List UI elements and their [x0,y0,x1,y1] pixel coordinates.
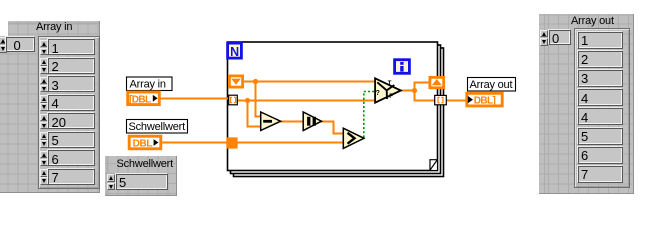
front panel: Schwellwert control panel [105,156,177,196]
Array out panel label [571,15,614,27]
svg-text:DBL]: DBL] [474,96,496,107]
svg-text:Schwellwert: Schwellwert [129,121,186,133]
for-loop frame 2 (middle) [231,45,441,174]
wire: branch down to subtract top input [256,82,262,117]
wire: junction up to right shift register [415,83,430,92]
Array in element 4 spinner [40,114,48,130]
Array out diagram label [468,78,516,92]
Array out element 6 value box (6) [578,147,623,164]
wire: Schwellwert terminal to tunnel [161,142,228,144]
junction dot B (shift reg branch) [253,79,258,84]
wire: input tunnel to select f input [238,100,376,102]
wire: junction down to output tunnel [415,90,436,101]
Array out element 1 value box (2) [578,51,623,68]
Array in element 7 value box (7) [48,169,95,185]
Array in element 4 value box (20) [48,113,95,129]
Array in element 3 value box (4) [48,95,95,111]
svg-text:F: F [389,94,393,100]
Array out index box [549,30,572,45]
junction dot C (select output) [412,88,417,93]
for-loop main frame [228,42,438,171]
svg-text:Array out: Array out [470,79,513,91]
Array in element 6 spinner [40,151,48,167]
Schwellwert DBL terminal [129,136,161,150]
Array in index spinner [0,37,7,53]
Array out element 4 value box (4) [578,108,623,125]
Array in element 6 value box (6) [48,150,95,166]
right shift register (up arrow) [430,77,444,87]
N count terminal [228,43,242,59]
wire: select out to junction [400,90,415,92]
Array out element rows [0,0,651,1]
Array in element 0 value box (1) [48,39,95,55]
Array out element 3 value box (4) [578,89,623,106]
wire: boolean greater out to select s input (green dotted) [364,92,375,138]
Schwellwert value box [116,174,168,190]
Array out index spinner [540,30,548,46]
front panel: Array out indicator panel [539,14,635,195]
Array out element 7 value box (7) [578,166,623,183]
for-loop dog-ear fold corner [430,160,437,171]
Array in element 5 value box (5) [48,132,95,148]
wire: subtract out to abs in [280,121,304,123]
wire: branch down to subtract bottom input [248,100,262,127]
front panel: Array in control panel [0,21,100,193]
for-loop frame 3 (back) [234,48,444,177]
svg-text:Array in: Array in [130,79,166,91]
Array in element 7 spinner [40,169,48,185]
svg-text:[DBL: [DBL [129,95,151,106]
svg-text:T: T [388,81,392,87]
left shift register (down arrow) [229,76,242,87]
Array in element 2 spinner [40,77,48,93]
output indexing tunnel [] [435,95,447,104]
select node [375,78,401,102]
Array in element 5 spinner [40,132,48,148]
Array out DBL terminal [467,93,502,106]
Array in element 3 spinner [40,95,48,111]
Array out element 0 value box (1) [578,32,623,49]
absolute value node [303,112,321,131]
Array in array shell [38,36,100,189]
subtract node [261,112,281,131]
Array in element 2 value box (3) [48,76,95,92]
Array out element 5 value box (5) [578,128,623,145]
Schwellwert spinner [107,174,115,190]
Array in element 0 spinner [40,40,48,56]
wire: shift register to select t input [244,81,376,83]
Array out array shell [574,28,630,188]
Array in index box [6,37,35,52]
Array in diagram label [127,77,173,91]
wire: Schwellwert tunnel to greater bottom input [237,142,344,144]
Schwellwert panel label [117,158,174,170]
Array in element 1 value box (2) [48,58,95,74]
Schwellwert solid tunnel [226,137,237,148]
Array in panel label [36,21,72,33]
wire: abs out to greater top input [320,122,344,134]
svg-text:DBL: DBL [133,139,153,150]
wire: Array in terminal to input tunnel [159,98,228,100]
Schwellwert diagram label [127,120,188,134]
Array in element rows [0,0,651,1]
svg-text:?: ? [376,90,380,97]
input indexing tunnel [] [229,95,238,105]
wire: output tunnel to Array out terminal [447,100,467,102]
Array in DBL terminal [128,92,160,106]
svg-text:N: N [230,45,239,59]
greater-than node [343,128,364,148]
Array out element 2 value box (3) [578,70,623,87]
Array in element 1 spinner [40,58,48,74]
junction dot A (x[i] branch) [245,98,250,103]
i iteration terminal [395,60,410,74]
white notch top-left [0,21,8,37]
